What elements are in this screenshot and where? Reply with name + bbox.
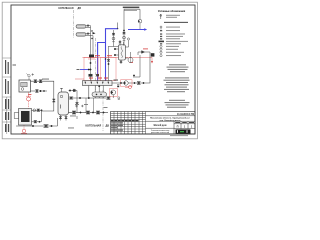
red gas drop pipe [24, 93, 29, 130]
collector manifold [83, 81, 113, 86]
red gas meter upper [26, 96, 31, 101]
cold water pipe blue [98, 29, 118, 81]
bottom pipe left [16, 118, 58, 127]
object name [154, 124, 167, 127]
format note under frame [170, 134, 188, 137]
boiler return row [31, 90, 48, 93]
svg-text:ДВ: ДВ [78, 7, 82, 10]
red dash marks [28, 93, 31, 96]
legend row 1 text [166, 15, 180, 18]
hot water outlet blue arrow [128, 29, 145, 31]
low collector [92, 92, 107, 97]
room boundary dash-dot lines [74, 10, 104, 131]
sheet name lines [151, 130, 171, 134]
legend row 6 [160, 38, 162, 39]
tank return pipe [69, 86, 111, 113]
red marks right of exchanger [129, 49, 149, 63]
safety line [133, 55, 140, 77]
legend row 2 [160, 26, 162, 30]
loop fittings [117, 82, 144, 88]
storage tank [58, 92, 69, 115]
pump P2 [111, 90, 116, 98]
riser nodes [91, 30, 95, 39]
svg-text:ДВ: ДВ [106, 124, 110, 127]
tank top fittings [60, 88, 75, 92]
svg-text:дер. Никифоровское: дер. Никифоровское [159, 119, 181, 122]
company logo [176, 129, 191, 133]
floor boiler fittings right [32, 109, 43, 112]
title block left grid horizontals [111, 114, 146, 132]
heat exchanger [119, 45, 126, 60]
red pump circle [125, 86, 132, 89]
svg-text:14-19-ИОС4-ТМ: 14-19-ИОС4-ТМ [177, 113, 194, 116]
left margin rotated text [5, 60, 9, 132]
svg-text:Жилой дом: Жилой дом [154, 124, 167, 127]
boiler label [13, 65, 50, 80]
gas inlet label [123, 7, 140, 9]
radiator valve 2 [86, 33, 93, 36]
svg-text:КОТЕЛЬНАЯ: КОТЕЛЬНАЯ [59, 7, 74, 10]
title block left grid verticals [114, 112, 146, 135]
cold water inlet stub [117, 23, 119, 29]
legend sample line [164, 21, 188, 23]
stage values [177, 125, 193, 129]
left grid text smudges [111, 122, 123, 130]
legend row 10 [160, 48, 162, 50]
header row smudge [111, 120, 138, 121]
legend row 4 [160, 33, 162, 34]
exchanger left fittings [114, 48, 118, 56]
supply pipe valves [34, 80, 55, 102]
red stub to tank [75, 78, 84, 80]
legend row 8 [160, 43, 162, 44]
title block outer [111, 112, 196, 135]
legend row 5 [160, 36, 162, 37]
legend row 12 [160, 55, 162, 57]
notes paragraph [164, 77, 190, 92]
pump P1 [124, 81, 128, 85]
legend heading [158, 10, 186, 13]
red collector risers [91, 79, 106, 81]
riser bottom unit [89, 55, 94, 58]
pipe riser supply [90, 26, 92, 57]
DHW down pipe [107, 47, 110, 81]
floor boiler [14, 109, 31, 126]
radiator valve 1 [86, 25, 91, 28]
red gas meter lower [21, 129, 27, 133]
doc number [177, 113, 194, 116]
page border [2, 2, 197, 139]
drawing frame [11, 5, 195, 134]
gas pipe top [124, 9, 140, 29]
red line labels [95, 54, 112, 57]
bottom main pipe [69, 112, 109, 114]
left margin stamp boxes [3, 58, 11, 134]
side fitting [118, 97, 120, 100]
cw inlet blue stub [80, 69, 89, 71]
DHW riser 1 with fittings [112, 30, 115, 47]
svg-text:П: П [177, 125, 179, 129]
bottom pipe upper fittings [75, 105, 84, 120]
expansion vessel [128, 52, 133, 63]
pump P2 red box [110, 89, 118, 97]
boiler flue fittings [27, 73, 35, 80]
legend row 9 [160, 45, 162, 47]
makeup line top [138, 51, 154, 57]
svg-text:КОТЕЛЬНАЯ: КОТЕЛЬНАЯ [86, 124, 102, 127]
boiler supply pipe [31, 81, 54, 121]
gas meter [138, 19, 142, 29]
stage header smudges [175, 122, 194, 123]
red enclosure 1 [84, 57, 98, 80]
legend row 3 [160, 30, 162, 31]
red enclosure 2 [101, 57, 117, 80]
legend row 11 [160, 51, 162, 53]
unit connection line [108, 38, 130, 47]
room labels bottom [86, 124, 110, 127]
floor boiler lower fittings [32, 121, 42, 123]
radiator AB2 [76, 33, 86, 37]
radiator AB1 [76, 25, 86, 29]
exchanger bottom fittings [120, 58, 128, 64]
exchanger top valve [119, 40, 124, 46]
tech data block [167, 64, 189, 72]
pipe riser return [92, 36, 94, 55]
bottom pipe valves [72, 111, 104, 114]
address lines [150, 117, 190, 122]
legend row 1 icon [160, 14, 162, 19]
title right section dividers [146, 116, 196, 134]
red riser labels [89, 78, 108, 79]
DHW riser 2 with fittings [123, 29, 126, 45]
riser bottom red tick [88, 58, 95, 60]
svg-text:решения котельной: решения котельной [151, 131, 169, 134]
cw inlet tick [77, 69, 80, 71]
label K1 [114, 80, 119, 81]
boiler wall unit [19, 80, 31, 92]
approval block [165, 100, 190, 108]
collector drops [95, 86, 103, 93]
boiler loop pipe [112, 52, 150, 83]
legend row 7 [159, 41, 165, 43]
room labels top [59, 7, 82, 10]
heating riser in enclosure1 [89, 57, 93, 81]
svg-text:Условные обозначения: Условные обозначения [158, 10, 186, 13]
red supply boundary line [82, 56, 152, 58]
misc small labels [60, 104, 108, 128]
tank right pipe down [59, 91, 78, 121]
pump P1 red box [121, 80, 133, 87]
red boundary arrow [151, 57, 153, 61]
